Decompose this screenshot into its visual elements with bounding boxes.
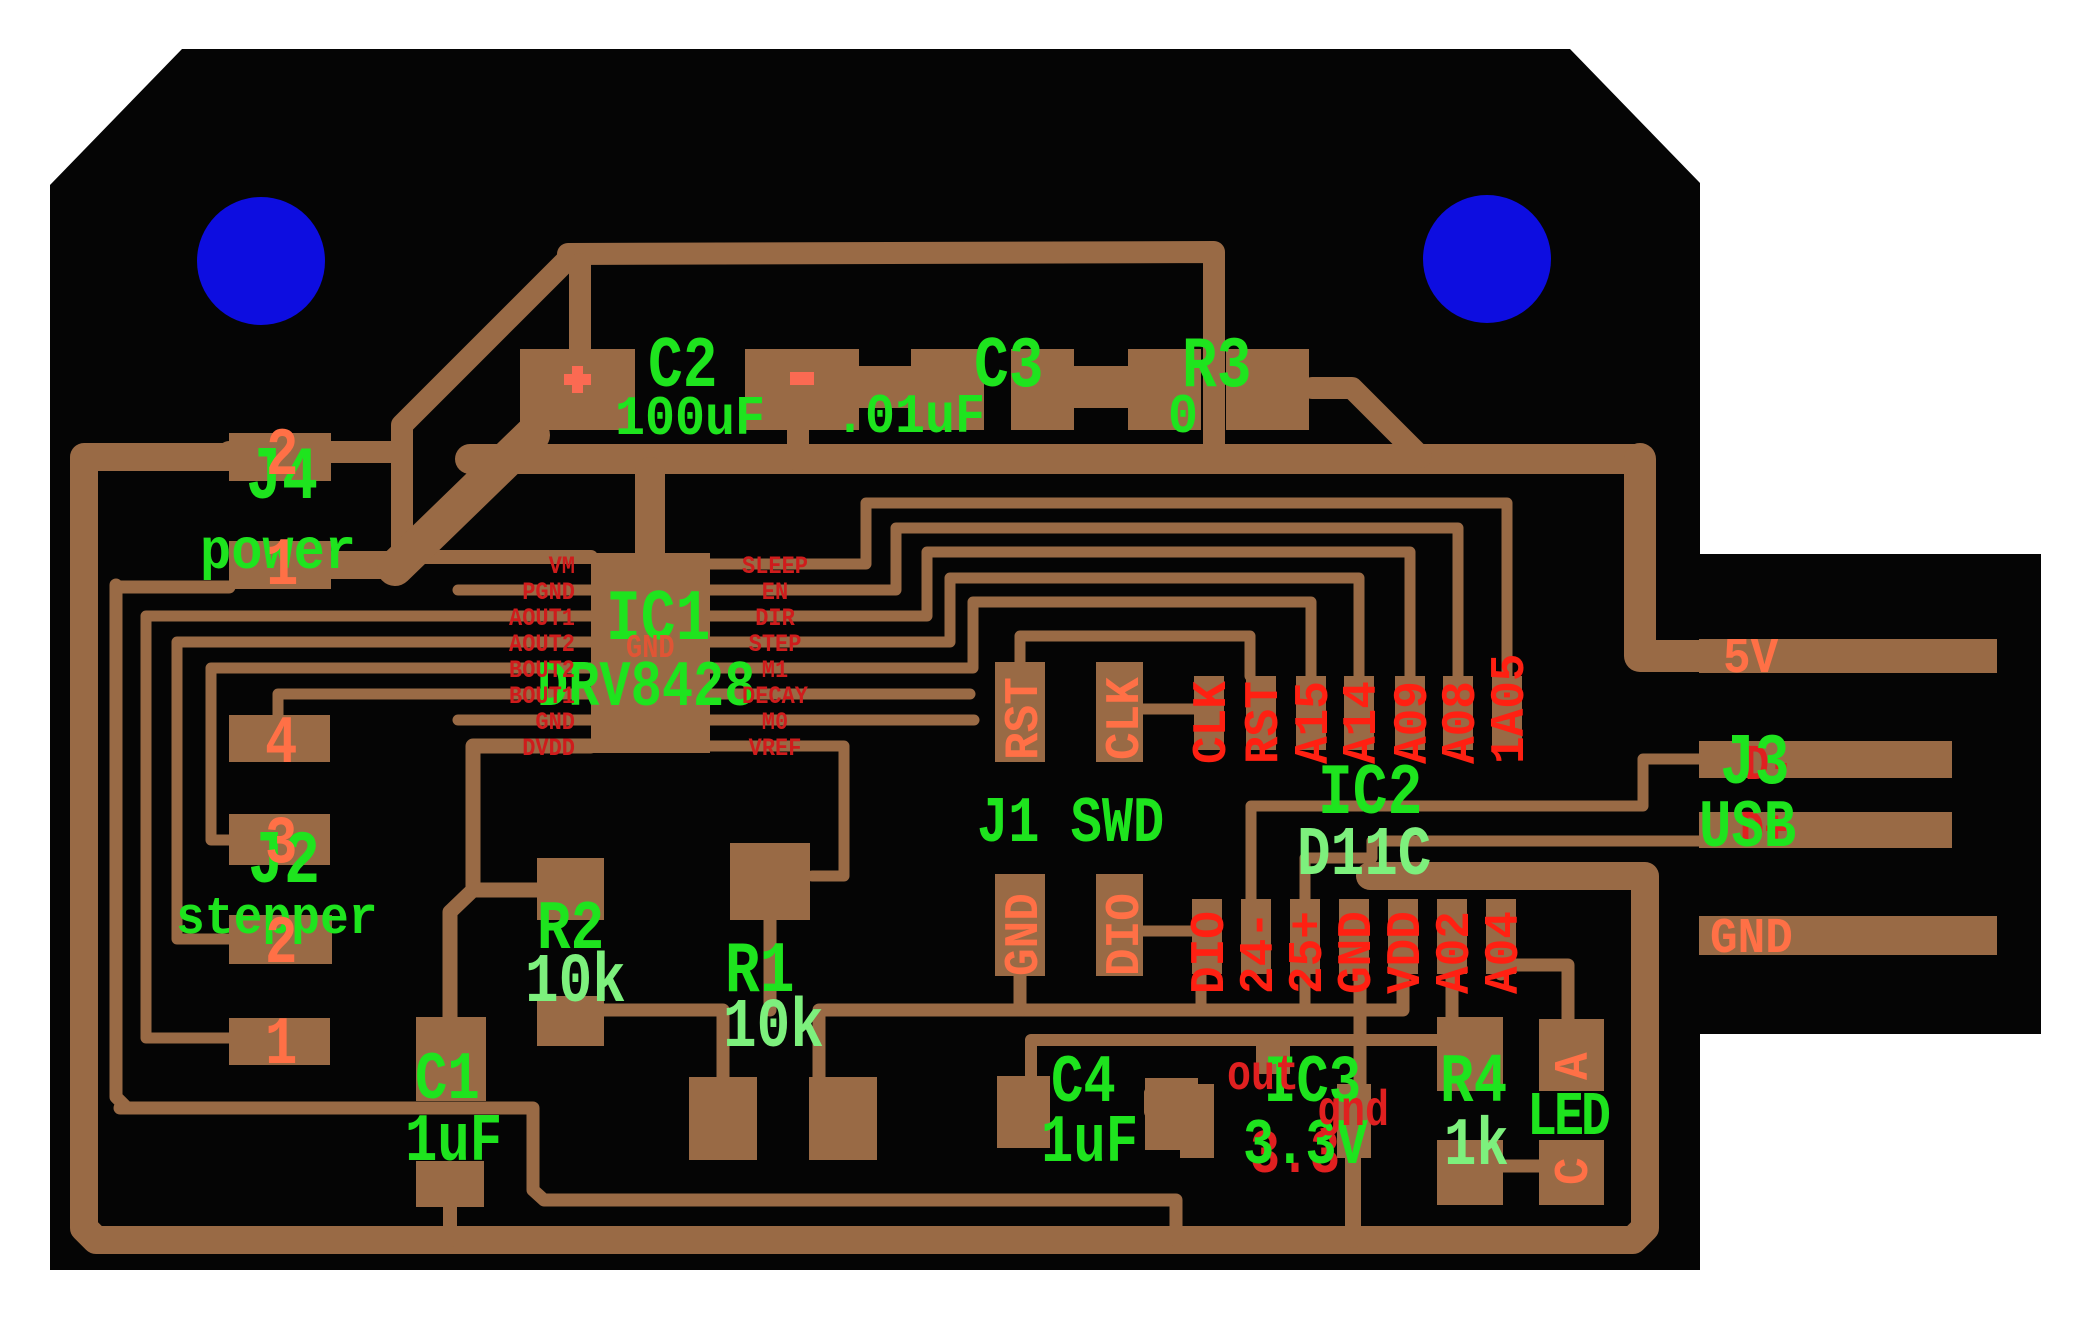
svg-text:A08: A08 [1435, 681, 1489, 764]
connector J1 pad RST [995, 662, 1045, 762]
IC1 pin label PGND [522, 579, 575, 608]
IC2 pin text DIO [1184, 911, 1238, 994]
IC1 pin label EN [762, 579, 788, 608]
wire A02 drop to R4 [1446, 974, 1459, 1019]
IC2 top pad RST [1246, 676, 1276, 750]
wire A04 led route [1501, 965, 1568, 1021]
USB pin GND [1710, 912, 1793, 968]
connector J2 pad 1 [229, 1018, 330, 1065]
wire DECAY stub [710, 689, 970, 700]
svg-text:VDD: VDD [1380, 911, 1434, 994]
label J2 [248, 820, 320, 905]
svg-text:VREF: VREF [749, 735, 802, 764]
USB pin D- [1745, 737, 1793, 794]
wire IC2 GND to IC3 [1354, 974, 1367, 1086]
IC1 pin label STEP [749, 631, 802, 660]
connector J1 pad CLK [1096, 662, 1143, 762]
wire VM rail under caps [470, 444, 1640, 474]
svg-text:2: 2 [266, 419, 298, 495]
IC1 pin label GND [535, 709, 575, 738]
wire SLEEP to 1A05 [710, 503, 1507, 676]
svg-text:DIR: DIR [755, 605, 795, 634]
capacitor C1 pad bottom [416, 1161, 484, 1207]
wire J1 DIO to IC2 DIO [1143, 926, 1194, 937]
node VREF divider pad [730, 843, 810, 920]
value 1k [1444, 1109, 1509, 1185]
label C2 [648, 325, 718, 408]
svg-text:GND: GND [626, 630, 675, 668]
IC2 top pad A09 [1395, 676, 1425, 750]
svg-text:1: 1 [265, 1008, 297, 1084]
label LED [1527, 1082, 1609, 1153]
svg-text:1A05: 1A05 [1484, 654, 1538, 764]
value power [200, 521, 356, 586]
value 3.3V [1243, 1109, 1368, 1183]
IC1 pin label BOUT2 [509, 657, 575, 686]
IC2 pin text 24- [1233, 911, 1287, 994]
wire J1 RST to IC2 RST [1020, 636, 1250, 676]
IC2 top pad A08 [1443, 676, 1473, 750]
IC2 pin text A14 [1336, 681, 1390, 764]
svg-text:out: out [1227, 1047, 1299, 1104]
svg-text:PGND: PGND [522, 579, 575, 608]
value DRV8428 [537, 651, 755, 725]
IC2 top pad 1A05 [1492, 676, 1522, 750]
svg-text:STEP: STEP [749, 631, 802, 660]
label C4 [1051, 1046, 1116, 1122]
svg-text:GND: GND [1331, 911, 1385, 994]
wire 5V down to finger [1640, 459, 1700, 656]
wire J4 pin1 down rail [116, 585, 127, 1108]
IC2 top pad A15 [1296, 676, 1326, 750]
IC1 pin label AOUT1 [509, 605, 575, 634]
pad number J4 2 [266, 419, 298, 495]
IC2 pin text RST [1238, 681, 1292, 764]
svg-text:1k: 1k [1444, 1109, 1509, 1185]
value stepper [176, 890, 378, 950]
IC1 pin label DECAY [742, 683, 809, 712]
label R1 [725, 930, 795, 1013]
connector J2 pad 4 [229, 715, 330, 762]
connector J4 pad 2 [229, 433, 331, 481]
svg-text:3: 3 [265, 807, 297, 883]
IC2 bottom pad 25+ [1290, 899, 1320, 974]
wire J1 CLK to IC2 CLK [1143, 704, 1196, 715]
wire EN to A08 [710, 528, 1458, 676]
IC1 pin label VM [549, 553, 575, 582]
resistor R4 pad bottom [1437, 1140, 1503, 1205]
pad number J4 1 [266, 529, 298, 605]
wire AOUT2 to J2 pin2 [177, 642, 591, 939]
IC2 pin text A15 [1288, 681, 1342, 764]
label IC3 [1264, 1046, 1361, 1122]
USB pin 5V [1723, 632, 1778, 688]
svg-text:CLK: CLK [1186, 681, 1240, 764]
pad number J2 3 [265, 807, 297, 883]
wire J4 pin1 to C2+ diagonal [395, 435, 532, 568]
wire DIR to A09 [710, 552, 1410, 676]
svg-text:DECAY: DECAY [742, 683, 809, 712]
wire C2+ riser to top rail [569, 264, 591, 352]
connector J2 pad 3 [229, 814, 330, 865]
wire A04 to LED [1495, 968, 1508, 974]
label R2 [537, 891, 604, 971]
value 100uF [615, 388, 765, 451]
svg-text:RST: RST [998, 677, 1052, 760]
regulator IC3 pad gnd [1337, 1084, 1371, 1158]
USB pin D+ [1740, 803, 1788, 860]
wire D- trace [1251, 759, 1700, 899]
J1 pad text CLK [1099, 677, 1153, 760]
value R2 10k [525, 944, 626, 1024]
svg-text:1uF: 1uF [405, 1105, 502, 1181]
capacitor C2 pad + [520, 349, 635, 430]
svg-text:SLEEP: SLEEP [742, 553, 808, 582]
mounting hole left [197, 197, 325, 325]
IC2 pin text CLK [1186, 681, 1240, 764]
IC1 pin label VREF [749, 735, 802, 764]
svg-text:A15: A15 [1288, 681, 1342, 764]
IC1 pin label DVDD [522, 735, 575, 764]
wire 25+ pad stub down [1300, 974, 1311, 1008]
label J3 [1720, 722, 1790, 805]
svg-text:.01uF: .01uF [835, 386, 985, 449]
wire IC1 GND top riser [635, 472, 665, 556]
connector J1 pad DIO [1096, 874, 1143, 976]
J1 pad text GND [998, 893, 1052, 976]
label IC2 [1318, 752, 1422, 835]
IC2 pin text A08 [1435, 681, 1489, 764]
svg-text:100uF: 100uF [615, 388, 765, 451]
wire DVDD branch to C1 [450, 890, 473, 1020]
svg-text:0: 0 [1168, 386, 1198, 449]
svg-text:10k: 10k [525, 944, 626, 1024]
svg-text:A: A [1548, 1052, 1602, 1080]
wire C1 bottom stub [443, 1205, 457, 1240]
IC1 pin label M1 [762, 657, 788, 686]
USB finger GND [1699, 916, 1997, 955]
IC2 bottom pad DIO [1192, 899, 1222, 974]
IC3 red 3.3 [1250, 1120, 1340, 1191]
svg-text:DIO: DIO [1099, 893, 1153, 976]
wire C4 right to IC3 out [1150, 1087, 1198, 1099]
svg-text:M0: M0 [762, 709, 788, 738]
connector J4 pad 1 [229, 541, 331, 589]
IC2 bottom pad GND [1339, 899, 1369, 974]
capacitor C3 pad right [1011, 349, 1074, 430]
IC2 pin text GND [1331, 911, 1385, 994]
wire M1 to A15 [710, 602, 1311, 676]
wire R1 right riser and rail east [819, 974, 1403, 1077]
resistor R1 pad right [809, 1077, 877, 1160]
IC2 pin text 1A05 [1484, 654, 1538, 764]
mounting hole right [1423, 195, 1551, 323]
label R4 [1440, 1044, 1507, 1124]
svg-text:DIO: DIO [1184, 911, 1238, 994]
wire C3-R3 bridge [1074, 366, 1128, 408]
label IC1 [606, 578, 710, 661]
IC1 pin label BOUT1 [509, 683, 575, 712]
plus mark C2 [564, 366, 591, 393]
wire PGND stub [458, 585, 591, 596]
svg-text:2: 2 [265, 907, 297, 983]
value C1 1uF [405, 1105, 502, 1181]
USB finger D- [1699, 741, 1952, 778]
svg-text:24-: 24- [1233, 911, 1287, 994]
wire AOUT1 to J2 pin1 [146, 616, 591, 1038]
capacitor C2 pad - [745, 349, 859, 430]
svg-text:5V: 5V [1723, 632, 1778, 688]
wire C2- riser [787, 428, 809, 460]
svg-text:GND: GND [998, 893, 1052, 976]
resistor R1 pad left [689, 1077, 757, 1160]
wire power top rail [568, 252, 1214, 459]
svg-text:A02: A02 [1429, 911, 1483, 994]
LED pin A [1548, 1052, 1602, 1080]
label R3 [1182, 325, 1252, 408]
svg-text:RST: RST [1238, 681, 1292, 764]
wire C1 top feed [120, 1108, 1176, 1240]
IC1 GND mark [626, 630, 675, 668]
wire VREF to divider pad [710, 746, 844, 876]
value D11C [1297, 817, 1431, 897]
IC2 bottom pad A04 [1486, 899, 1516, 974]
regulator IC3 pad in [1256, 1036, 1290, 1074]
capacitor C1 pad top [416, 1017, 486, 1101]
IC2 bottom pad 24- [1241, 899, 1271, 974]
IC1 pin label DIR [755, 605, 795, 634]
svg-text:BOUT1: BOUT1 [509, 683, 575, 712]
LED pin C [1548, 1157, 1602, 1185]
svg-text:25+: 25+ [1282, 911, 1336, 994]
IC2 top pad A14 [1344, 676, 1374, 750]
svg-text:4: 4 [265, 707, 297, 783]
label J1 SWD [977, 787, 1164, 861]
svg-text:DVDD: DVDD [522, 735, 575, 764]
wire R4 to LED C [1503, 1160, 1539, 1173]
pad number J2 1 [265, 1008, 297, 1084]
wire VM feed [402, 550, 591, 564]
svg-text:D11C: D11C [1297, 817, 1431, 897]
svg-text:J1 SWD: J1 SWD [977, 787, 1164, 861]
wire 3.3V rail [590, 1010, 723, 1077]
wire BOUT2 to J2 pin3 [211, 668, 591, 840]
wire BOUT1 to J2 pin4 [278, 694, 591, 716]
svg-text:LED: LED [1527, 1082, 1609, 1153]
wire J4 pin2 riser to rail [402, 257, 570, 557]
wire IC3 gnd down [1345, 1158, 1361, 1240]
wire GND loop left+bottom [84, 457, 1645, 1240]
svg-text:gnd: gnd [1317, 1083, 1389, 1140]
svg-text:A14: A14 [1336, 681, 1390, 764]
value USB [1699, 791, 1796, 867]
IC2 pin text A04 [1478, 911, 1532, 994]
svg-text:1: 1 [266, 529, 298, 605]
svg-text:A04: A04 [1478, 911, 1532, 994]
value R1 10k [723, 989, 824, 1069]
capacitor C3 pad left [911, 349, 984, 430]
LED pad A [1539, 1019, 1604, 1091]
IC2 bottom pad A02 [1437, 899, 1467, 974]
label J4 [246, 436, 318, 521]
IC3 pin gnd [1317, 1083, 1389, 1140]
wire DIO pad stub down [1196, 974, 1207, 1008]
resistor R3 pad right [1226, 349, 1309, 430]
svg-text:GND: GND [1710, 912, 1793, 968]
wire STEP to A14 [710, 578, 1359, 676]
svg-text:M1: M1 [762, 657, 788, 686]
wire M0 stub [710, 715, 974, 726]
pad number J2 2 [265, 907, 297, 983]
svg-text:BOUT2: BOUT2 [509, 657, 575, 686]
svg-text:1uF: 1uF [1041, 1106, 1138, 1182]
wire C4 right link [1144, 1093, 1156, 1112]
IC2 pin text VDD [1380, 911, 1434, 994]
svg-text:AOUT1: AOUT1 [509, 605, 575, 634]
wire GND pin stub [458, 715, 591, 726]
IC1 pin label AOUT2 [509, 631, 575, 660]
svg-text:10k: 10k [723, 989, 824, 1069]
IC2 top pad CLK [1194, 676, 1224, 750]
wire R3 to 5V diagonal [1312, 388, 1421, 457]
resistor R2 pad top [537, 858, 604, 920]
wire J4 pin1 stub [331, 551, 400, 579]
value C4 1uF [1041, 1106, 1138, 1182]
svg-text:AOUT2: AOUT2 [509, 631, 575, 660]
label C3 [974, 325, 1044, 408]
IC1 pin label M0 [762, 709, 788, 738]
regulator IC3 pad out [1180, 1084, 1214, 1158]
value .01uF [835, 386, 985, 449]
minus mark C2 [790, 372, 814, 385]
svg-text:GND: GND [535, 709, 575, 738]
svg-text:VM: VM [549, 553, 575, 582]
wire C2-C3 bridge [859, 366, 911, 408]
capacitor C4 pad right [1145, 1078, 1198, 1150]
value 0 [1168, 386, 1198, 449]
svg-text:C: C [1548, 1157, 1602, 1185]
resistor R3 pad left [1128, 349, 1201, 430]
IC3 pin out [1227, 1047, 1299, 1104]
svg-text:USB: USB [1699, 791, 1796, 867]
IC2 pin text 25+ [1282, 911, 1336, 994]
capacitor C4 pad left [997, 1076, 1050, 1148]
resistor R2 pad bottom [537, 996, 604, 1046]
wire D+ trace [1305, 841, 1720, 899]
svg-text:A09: A09 [1387, 681, 1441, 764]
IC2 pin text A02 [1429, 911, 1483, 994]
IC IC1 body [591, 553, 710, 753]
svg-text:EN: EN [762, 579, 788, 608]
USB finger 5V [1699, 639, 1997, 673]
connector J2 pad 2 [229, 915, 332, 964]
USB finger D+ [1699, 812, 1952, 848]
IC2 pin text A09 [1387, 681, 1441, 764]
IC1 pin label SLEEP [742, 553, 808, 582]
label C1 [415, 1043, 480, 1119]
wire C4 left riser [1031, 1040, 1437, 1077]
svg-text:CLK: CLK [1099, 677, 1153, 760]
wire J1 GND stub down [1014, 976, 1027, 1010]
pad number J2 4 [265, 707, 297, 783]
IC2 bottom pad VDD [1388, 899, 1418, 974]
connector J1 pad GND [995, 874, 1045, 976]
wire J4 pin1 left link [116, 581, 229, 594]
J1 pad text DIO [1099, 893, 1153, 976]
wire J4 pin2 stub [229, 441, 402, 463]
LED pad C [1539, 1140, 1604, 1205]
resistor R4 pad top [1437, 1017, 1503, 1091]
wire DVDD to R2 and C1 [473, 746, 591, 890]
J1 pad text RST [998, 677, 1052, 760]
wire divider pad down [764, 920, 777, 1010]
